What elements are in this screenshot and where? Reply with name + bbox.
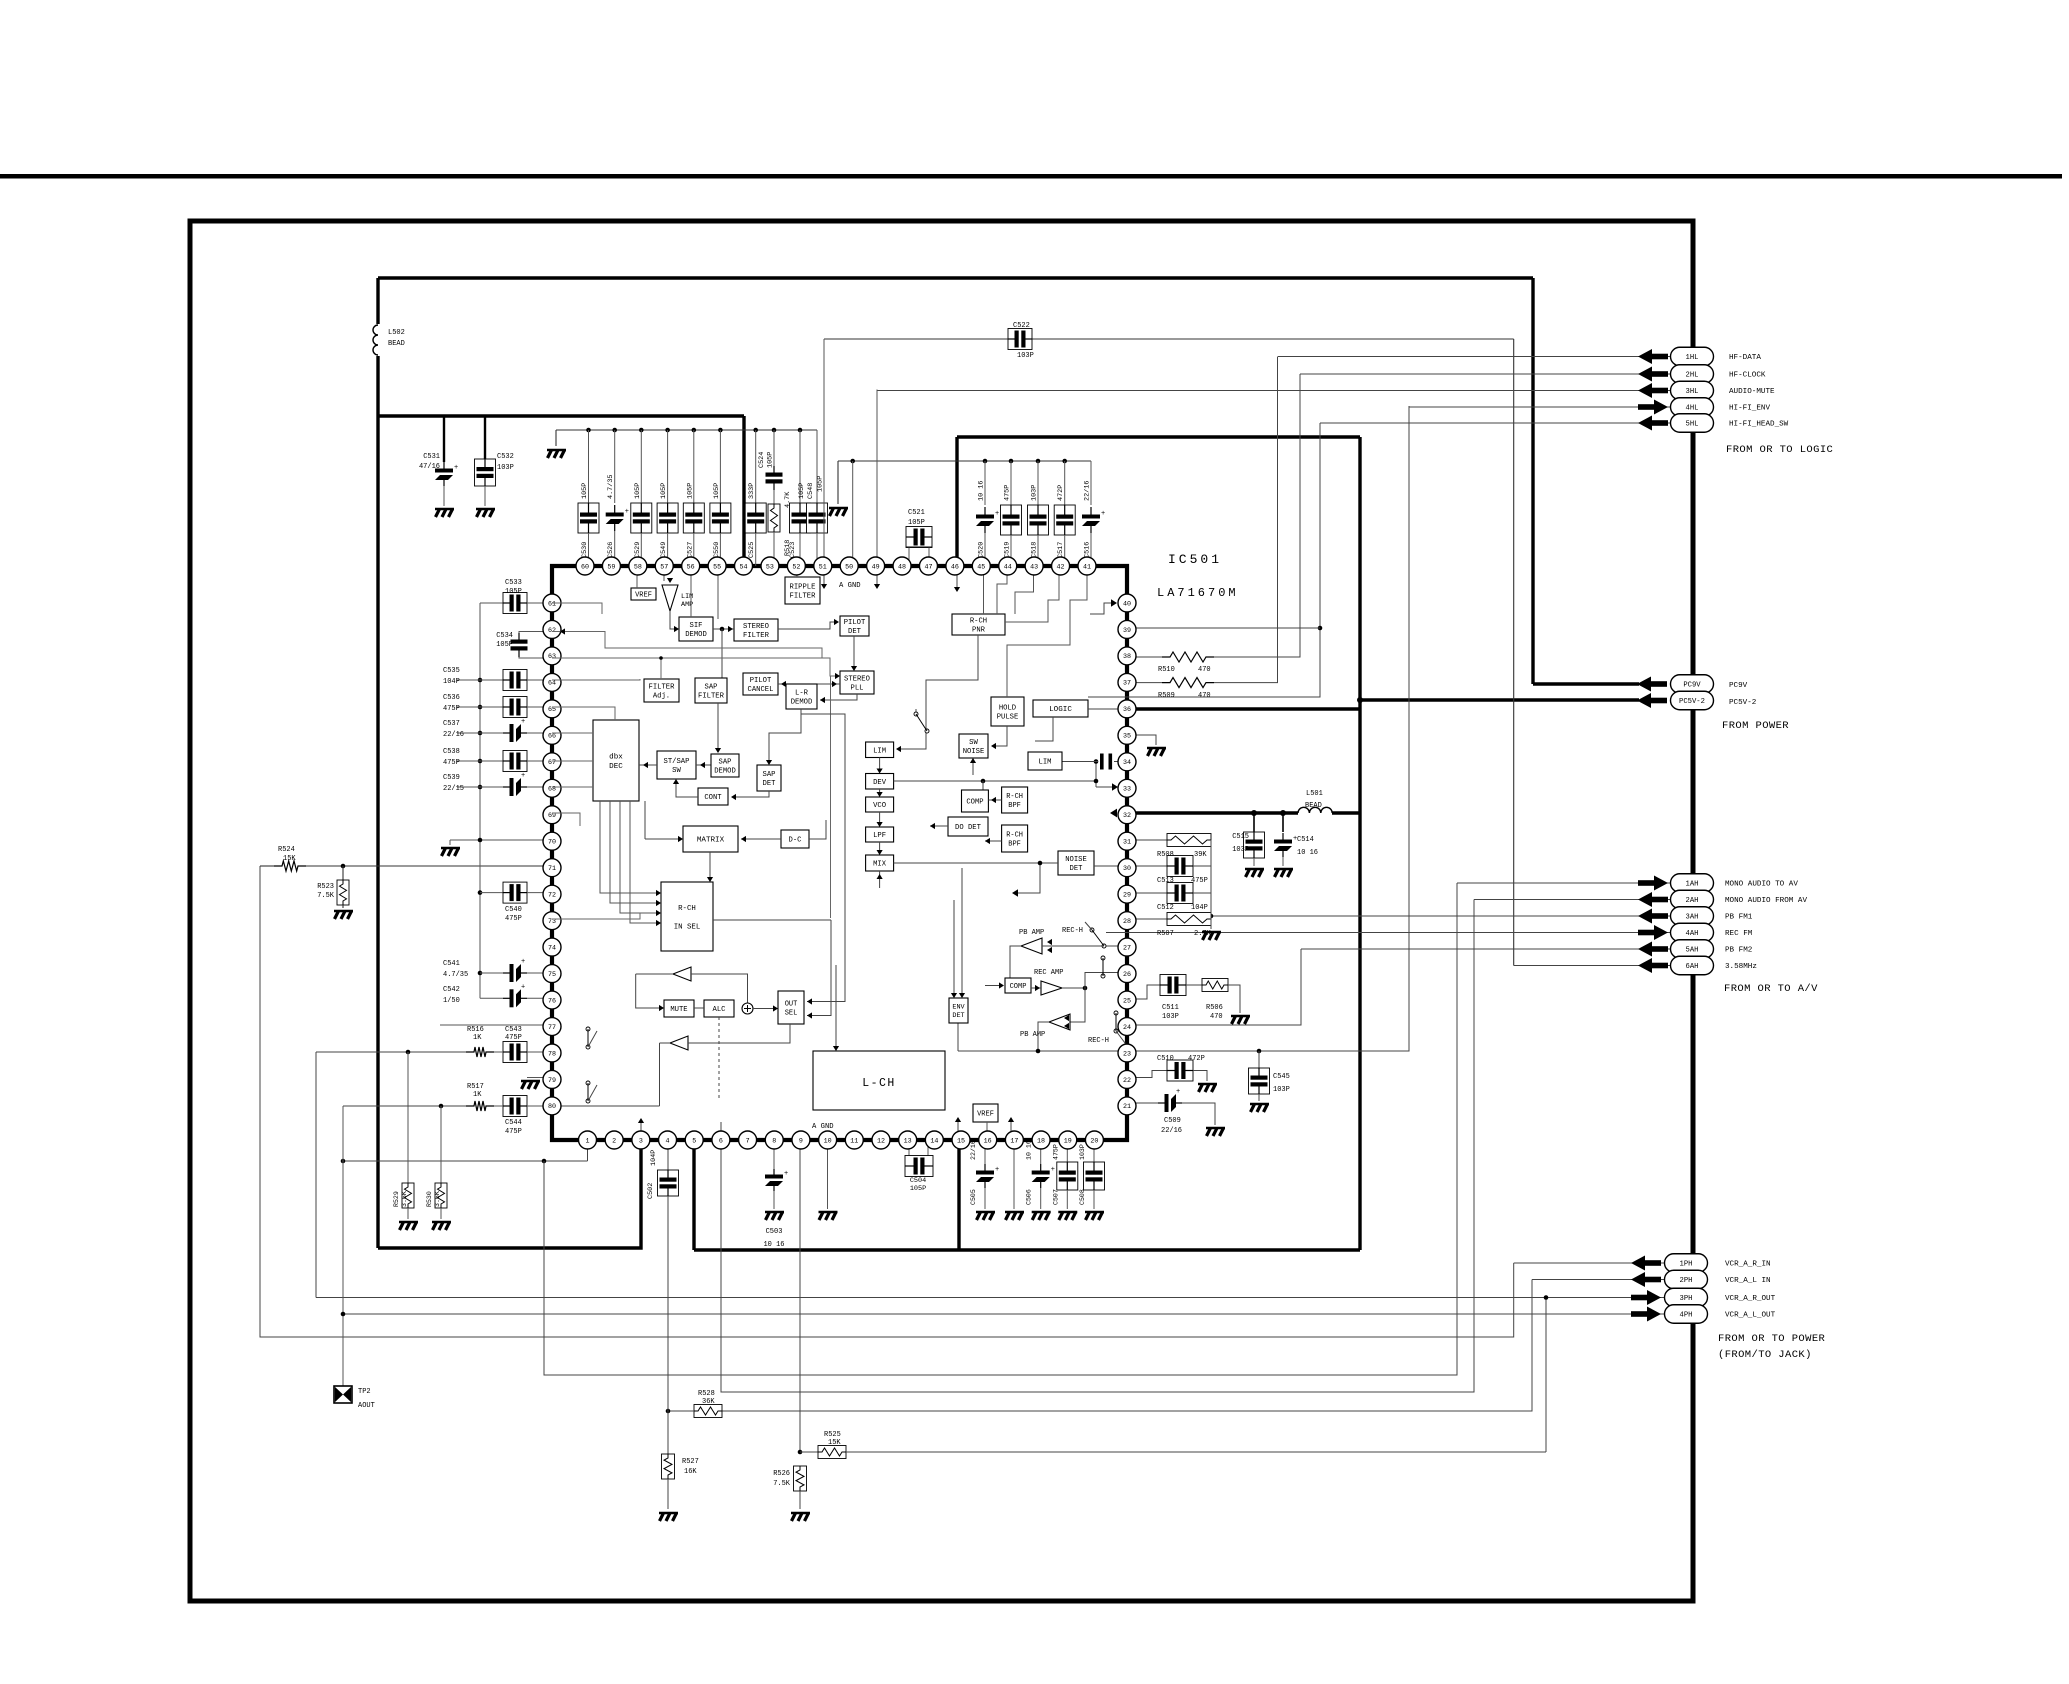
svg-text:DET: DET — [763, 780, 777, 788]
svg-text:333P: 333P — [748, 483, 756, 499]
wire COMP input — [985, 985, 1001, 987]
svg-text:VCO: VCO — [873, 802, 886, 810]
wire pin72 internal — [551, 892, 553, 894]
svg-text:4AH: 4AH — [1686, 930, 1699, 938]
hi-fi power box right — [1358, 437, 1361, 1250]
svg-text:28: 28 — [1123, 918, 1131, 926]
svg-text:C514: C514 — [1297, 836, 1314, 844]
wire 2AH — [1474, 899, 1671, 901]
ground — [435, 509, 454, 517]
wire pin39 to 5HL net — [1127, 627, 1320, 629]
svg-text:+: + — [625, 508, 629, 516]
ground — [791, 1513, 810, 1521]
svg-text:FILTER: FILTER — [649, 684, 676, 692]
svg-text:2HL: 2HL — [1686, 372, 1699, 380]
svg-text:CONT: CONT — [704, 794, 722, 802]
svg-text:47/16: 47/16 — [419, 463, 440, 471]
capacitor C539 — [478, 785, 483, 790]
svg-text:DET: DET — [952, 1012, 964, 1020]
svg-text:REC FM: REC FM — [1725, 930, 1753, 938]
svg-text:32: 32 — [1123, 812, 1131, 820]
wire DEV to VCO — [879, 789, 881, 794]
svg-text:BPF: BPF — [1008, 802, 1021, 810]
svg-text:PLL: PLL — [851, 685, 864, 693]
svg-text:58: 58 — [634, 563, 642, 571]
resistor R527 — [667, 1411, 669, 1454]
block DO DET — [948, 817, 988, 836]
wire D-C right stub — [809, 820, 826, 839]
wire pin36 supply — [1127, 707, 1360, 710]
wire R525 to 3PH — [1545, 1298, 1547, 1453]
capacitor C535 — [478, 678, 483, 683]
svg-text:475P: 475P — [443, 705, 460, 713]
wire pin61 internal — [552, 603, 602, 614]
svg-text:FROM POWER: FROM POWER — [1722, 720, 1789, 732]
svg-text:R516: R516 — [467, 1026, 484, 1034]
svg-text:C549: C549 — [660, 542, 668, 558]
wire BPF to COMP — [988, 799, 1001, 801]
svg-text:53: 53 — [766, 563, 774, 571]
block MUTE — [664, 1000, 694, 1017]
ground — [1250, 1104, 1269, 1112]
block SAP DEMOD — [711, 754, 739, 777]
svg-text:C508: C508 — [1079, 1189, 1086, 1205]
svg-text:104P: 104P — [1191, 904, 1208, 912]
hi-fi power box top — [957, 435, 1360, 438]
svg-text:17: 17 — [1010, 1137, 1018, 1145]
svg-text:46: 46 — [951, 563, 959, 571]
switch pin79 — [586, 1081, 590, 1085]
connector 5AH — [1638, 942, 1652, 957]
wire SIF to STEREO FILTER — [713, 628, 734, 630]
svg-text:105P: 105P — [817, 476, 825, 492]
wire SAP FILTER to SAP DEMOD — [717, 703, 719, 750]
capacitor C507 — [1066, 1140, 1068, 1164]
svg-text:78: 78 — [548, 1050, 556, 1058]
ground — [334, 911, 353, 919]
svg-text:C548: C548 — [807, 483, 815, 499]
svg-text:C510: C510 — [1157, 1055, 1174, 1063]
svg-text:CANCEL: CANCEL — [748, 686, 774, 694]
capacitor C523 — [798, 428, 803, 433]
capacitor C540 — [478, 890, 483, 895]
block VREF — [631, 588, 656, 600]
svg-text:+: + — [784, 1170, 788, 1178]
capacitor C538 — [478, 759, 483, 764]
svg-text:C527: C527 — [686, 542, 694, 558]
svg-text:R509: R509 — [1158, 692, 1175, 700]
svg-text:HF-DATA: HF-DATA — [1729, 354, 1761, 362]
junction — [1094, 759, 1099, 764]
wire pin62 internal — [552, 632, 822, 659]
svg-text:54: 54 — [740, 563, 748, 571]
svg-text:C529: C529 — [634, 542, 642, 558]
svg-text:39: 39 — [1123, 627, 1131, 635]
wire pin68 to dbx — [552, 786, 593, 788]
wire ENV DET inputs — [953, 900, 955, 994]
svg-text:6: 6 — [719, 1137, 723, 1145]
svg-text:FILTER: FILTER — [698, 693, 725, 701]
svg-text:C537: C537 — [443, 720, 460, 728]
wire 2AH to pin6 — [721, 900, 1474, 1393]
wire pin 3 ground return — [378, 1140, 641, 1248]
svg-text:2AH: 2AH — [1686, 897, 1699, 905]
wire pin69 stub — [552, 813, 580, 826]
wire into MATRIX — [645, 838, 680, 840]
svg-text:43: 43 — [1030, 563, 1038, 571]
svg-text:SW: SW — [969, 739, 978, 747]
block FILTER Adj. — [644, 679, 679, 702]
svg-text:36K: 36K — [702, 1398, 715, 1406]
wire REC AMP out to pin26 — [1062, 987, 1085, 989]
svg-text:5AH: 5AH — [1686, 947, 1699, 955]
wire dbx outputs to IN SEL — [600, 801, 658, 893]
svg-text:1PH: 1PH — [1680, 1261, 1693, 1269]
svg-text:C517: C517 — [1057, 542, 1065, 558]
wire pin 5 to power box — [692, 1140, 695, 1250]
switch REC-H top — [1104, 945, 1127, 947]
svg-text:FROM OR TO A/V: FROM OR TO A/V — [1724, 983, 1818, 995]
svg-text:105P: 105P — [910, 1185, 926, 1193]
wire pin49 to 3HL — [876, 390, 878, 567]
wire LPF to MIX — [879, 842, 881, 852]
svg-text:FILTER: FILTER — [790, 593, 817, 601]
block SIF DEMOD — [679, 617, 713, 641]
svg-text:103P: 103P — [1273, 1086, 1290, 1094]
wire PC5V-2 to connector — [1360, 698, 1639, 701]
svg-text:DEMOD: DEMOD — [685, 631, 707, 639]
wire 5AH — [1301, 948, 1671, 950]
svg-text:4: 4 — [666, 1137, 670, 1145]
wire BPF lower arrow — [985, 840, 1002, 842]
svg-text:52: 52 — [792, 563, 800, 571]
svg-text:22/16: 22/16 — [970, 1140, 977, 1160]
svg-text:39K: 39K — [1194, 851, 1207, 859]
svg-text:FROM OR TO LOGIC: FROM OR TO LOGIC — [1726, 444, 1833, 456]
block COMP rec — [1005, 978, 1031, 993]
svg-text:A GND: A GND — [812, 1123, 834, 1131]
block R-CH PNR — [952, 614, 1005, 635]
svg-text:MONO AUDIO TO AV: MONO AUDIO TO AV — [1725, 881, 1798, 889]
svg-text:R-CH: R-CH — [678, 905, 696, 913]
wire PB AMP out — [1010, 946, 1021, 978]
svg-text:105P: 105P — [660, 483, 668, 499]
wire pin17 ground — [1013, 1140, 1015, 1209]
svg-text:DEMOD: DEMOD — [791, 699, 813, 707]
svg-text:4.7/35: 4.7/35 — [607, 475, 615, 499]
svg-text:R528: R528 — [698, 1390, 715, 1398]
svg-text:C543: C543 — [505, 1026, 522, 1034]
svg-text:475P: 475P — [1191, 877, 1208, 885]
capacitor C524 — [772, 428, 777, 433]
svg-text:C550: C550 — [713, 542, 721, 558]
resistor R530 — [440, 1106, 442, 1183]
svg-text:HI-FI_ENV: HI-FI_ENV — [1729, 405, 1770, 413]
summing node — [742, 1003, 753, 1014]
svg-text:VCR_A_R_IN: VCR_A_R_IN — [1725, 1261, 1771, 1269]
svg-text:103P: 103P — [1079, 1144, 1086, 1160]
wire L-CH input arrow — [835, 965, 837, 1047]
svg-text:PULSE: PULSE — [997, 714, 1019, 722]
wire pin41 jog — [1007, 566, 1087, 697]
wire pin73 internal — [552, 913, 640, 919]
arrow pin3 up — [640, 1121, 642, 1133]
svg-text:DO DET: DO DET — [955, 824, 982, 832]
block VREF lower — [973, 1104, 998, 1122]
svg-text:9: 9 — [799, 1137, 803, 1145]
block R-CH IN SEL — [661, 882, 713, 951]
wire pin77 row — [440, 1024, 552, 1026]
wire L-R DEMOD to SAP DET — [769, 709, 801, 762]
capacitor C516 — [1090, 461, 1092, 505]
connector PC9V — [1671, 675, 1714, 694]
svg-text:2: 2 — [612, 1137, 616, 1145]
wire pin 50 to rail — [850, 459, 855, 464]
ground — [1005, 1212, 1024, 1220]
arrow pin15 up — [957, 1120, 959, 1133]
junction — [666, 1409, 671, 1414]
svg-text:HOLD: HOLD — [999, 705, 1016, 713]
wire AOUT horizontal — [343, 1160, 588, 1162]
wire left power rail vertical — [376, 278, 379, 1248]
switch pin77 — [586, 1027, 590, 1031]
block D-C — [781, 830, 809, 848]
wire FILTER Adj top — [660, 658, 662, 679]
capacitor C508 — [1093, 1140, 1095, 1164]
svg-text:79: 79 — [548, 1077, 556, 1085]
wire pin38 R510 to 2HL — [1127, 656, 1162, 658]
svg-text:Adj.: Adj. — [653, 693, 670, 701]
junction — [1251, 810, 1257, 816]
capacitor C542 — [480, 997, 503, 999]
wire 1PH — [1514, 1262, 1665, 1264]
svg-text:R526: R526 — [773, 1470, 790, 1478]
capacitor C527 — [692, 428, 697, 433]
wire pin32 supply — [1127, 811, 1298, 814]
resistor R528 — [694, 1405, 722, 1418]
amplifier monitor lower — [670, 1036, 688, 1050]
svg-text:L502: L502 — [388, 329, 405, 337]
svg-text:103P: 103P — [1232, 846, 1249, 854]
svg-text:C540: C540 — [505, 906, 522, 914]
svg-text:HI-FI_HEAD_SW: HI-FI_HEAD_SW — [1729, 421, 1789, 429]
svg-text:470: 470 — [1198, 692, 1211, 700]
capacitor C531 — [443, 416, 445, 462]
svg-text:3.58MHz: 3.58MHz — [1725, 963, 1757, 971]
outer border frame — [190, 221, 1693, 1601]
svg-text:475P: 475P — [1004, 485, 1012, 501]
wire amp1 — [636, 973, 673, 975]
ground — [476, 509, 495, 517]
svg-text:40: 40 — [1123, 600, 1131, 608]
capacitor C511 — [1160, 975, 1186, 996]
svg-text:C531: C531 — [423, 453, 440, 461]
svg-text:C521: C521 — [908, 509, 925, 517]
svg-text:5: 5 — [692, 1137, 696, 1145]
capacitor C515 — [1253, 813, 1255, 832]
svg-text:33: 33 — [1123, 786, 1131, 794]
amplifier monitor upper — [673, 967, 691, 981]
wire STEREO FILTER to PILOT DET — [778, 622, 836, 629]
wire pin67 to dbx — [552, 760, 593, 762]
connector 6AH — [1638, 958, 1652, 973]
ground — [1245, 869, 1264, 877]
svg-text:DET: DET — [848, 628, 862, 636]
svg-text:PILOT: PILOT — [750, 677, 772, 685]
ground — [1231, 1016, 1250, 1024]
IC501 pins left column — [543, 594, 561, 612]
svg-text:2PH: 2PH — [1680, 1277, 1693, 1285]
svg-text:25: 25 — [1123, 997, 1131, 1005]
svg-text:71: 71 — [548, 865, 556, 873]
wire pin43 to PNR — [1015, 566, 1034, 614]
svg-text:50: 50 — [845, 563, 853, 571]
connector 4AH — [1654, 925, 1668, 940]
svg-text:470: 470 — [1198, 666, 1211, 674]
arrow pin17 up — [1010, 1120, 1012, 1133]
capacitor C529 — [639, 428, 644, 433]
svg-text:SAP: SAP — [719, 759, 732, 767]
block STEREO FILTER — [734, 619, 778, 641]
svg-text:PB FM2: PB FM2 — [1725, 947, 1753, 955]
ground — [1032, 1212, 1051, 1220]
svg-text:PC9V: PC9V — [1683, 682, 1701, 690]
svg-text:R517: R517 — [467, 1083, 484, 1091]
svg-text:SW: SW — [672, 767, 681, 775]
svg-text:475P: 475P — [505, 1034, 522, 1042]
svg-text:L-CH: L-CH — [862, 1077, 896, 1090]
wire pin35 to ground — [1127, 735, 1156, 745]
svg-text:+: + — [521, 718, 525, 726]
svg-text:103P: 103P — [1031, 485, 1039, 501]
connector PC5V-2 — [1671, 691, 1714, 710]
svg-text:LPF: LPF — [873, 832, 886, 840]
svg-text:15K: 15K — [828, 1439, 841, 1447]
svg-text:C544: C544 — [505, 1119, 522, 1127]
testpoint TP2 — [334, 1386, 352, 1403]
block DEV — [866, 774, 894, 790]
wire 6AH — [1514, 965, 1671, 967]
block OUT SEL — [778, 991, 804, 1024]
svg-text:+: + — [454, 464, 458, 472]
capacitor C534 — [511, 640, 528, 644]
capacitor C537 — [478, 731, 483, 736]
svg-text:AUDIO-MUTE: AUDIO-MUTE — [1729, 388, 1775, 396]
wire PNR output — [897, 635, 978, 749]
wire TP2 column — [342, 1106, 344, 1386]
wire NOISE DET out — [1015, 863, 1058, 893]
wire 2HL — [1300, 373, 1671, 375]
capacitor C506 — [1040, 1140, 1042, 1164]
svg-text:44: 44 — [1004, 563, 1012, 571]
svg-text:29: 29 — [1123, 891, 1131, 899]
svg-text:75: 75 — [548, 971, 556, 979]
svg-text:C536: C536 — [443, 694, 460, 702]
svg-text:15: 15 — [957, 1137, 965, 1145]
svg-text:4.7/35: 4.7/35 — [443, 971, 468, 979]
svg-text:76: 76 — [548, 997, 556, 1005]
svg-text:REC AMP: REC AMP — [1034, 969, 1063, 977]
svg-text:55: 55 — [713, 563, 721, 571]
svg-text:1: 1 — [585, 1137, 589, 1145]
svg-text:C520: C520 — [978, 542, 986, 558]
wire DEV right — [894, 780, 1096, 782]
svg-text:475P: 475P — [1052, 1144, 1059, 1160]
svg-text:C511: C511 — [1162, 1004, 1179, 1012]
svg-text:PB AMP: PB AMP — [1019, 929, 1044, 937]
svg-text:PB FM1: PB FM1 — [1725, 914, 1753, 922]
wire pin10 ground — [827, 1140, 829, 1209]
wire pin4 column — [667, 1140, 669, 1170]
svg-text:18: 18 — [1037, 1137, 1045, 1145]
svg-text:MUTE: MUTE — [670, 1006, 687, 1014]
capacitor C518 — [1036, 459, 1041, 464]
svg-text:L-R: L-R — [795, 690, 809, 698]
svg-text:LOGIC: LOGIC — [1049, 706, 1072, 714]
svg-text:BEAD: BEAD — [1305, 802, 1322, 810]
capacitor C514 — [1282, 813, 1284, 832]
svg-text:R524: R524 — [278, 846, 295, 854]
block L-R DEMOD — [786, 684, 817, 709]
svg-text:105P: 105P — [713, 483, 721, 499]
svg-text:7: 7 — [746, 1137, 750, 1145]
svg-text:VREF: VREF — [977, 1111, 994, 1119]
wire MIX bottom — [879, 871, 881, 888]
wire R510 right — [1214, 374, 1300, 657]
block MIX — [866, 855, 894, 871]
wire AOUT to 1AH — [544, 883, 1457, 1375]
wire 1PH to R524 net — [260, 866, 1514, 1337]
wire STEREO PLL to L-R DEMOD — [820, 694, 857, 700]
wire 5HL to LOGIC — [1088, 423, 1320, 697]
wire pin45 to PNR — [983, 566, 985, 614]
svg-text:VCR_A_L_OUT: VCR_A_L_OUT — [1725, 1312, 1776, 1320]
connector 1PH — [1631, 1256, 1645, 1271]
svg-text:C545: C545 — [1273, 1073, 1290, 1081]
svg-text:C518: C518 — [1031, 542, 1039, 558]
ground — [1147, 748, 1166, 756]
ground — [829, 508, 848, 516]
svg-text:LIM: LIM — [1039, 759, 1052, 767]
svg-text:74: 74 — [548, 944, 556, 952]
wire 3HL — [877, 390, 1671, 392]
svg-text:R-CH: R-CH — [1006, 832, 1023, 840]
svg-text:PNR: PNR — [972, 627, 986, 635]
svg-text:7.5K: 7.5K — [773, 1480, 791, 1488]
svg-text:OUT: OUT — [785, 1001, 798, 1009]
svg-text:64: 64 — [548, 680, 556, 688]
wire left bypass rail — [479, 603, 481, 998]
IC501 pins right column — [1118, 594, 1136, 612]
arrow pin6 down — [720, 1122, 722, 1132]
amplifier LIM AMP — [662, 585, 678, 611]
capacitor C544 — [503, 1096, 527, 1117]
svg-text:42: 42 — [1057, 563, 1065, 571]
wire to SAP FILTER — [721, 629, 723, 678]
svg-text:BPF: BPF — [1008, 840, 1021, 848]
svg-text:67: 67 — [548, 759, 556, 767]
wire VCO to LPF — [879, 812, 881, 824]
svg-text:105P: 105P — [505, 588, 522, 596]
wire ALC dashed — [718, 1017, 720, 1100]
wire LIM to DEV — [879, 758, 881, 771]
svg-text:C533: C533 — [505, 579, 522, 587]
svg-text:C522: C522 — [1013, 322, 1030, 330]
svg-text:PC9V: PC9V — [1729, 682, 1748, 690]
junction — [1318, 626, 1323, 631]
capacitor C550 — [718, 428, 723, 433]
svg-text:26: 26 — [1123, 971, 1131, 979]
